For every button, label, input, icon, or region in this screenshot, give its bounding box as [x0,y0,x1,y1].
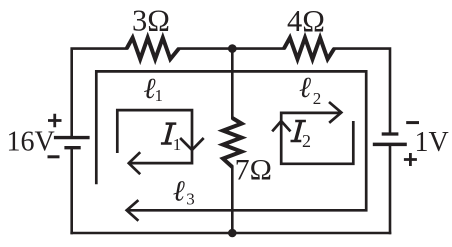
svg-text:4Ω: 4Ω [287,4,325,38]
voltage source 16V plates [54,138,90,148]
svg-text:2: 2 [302,131,311,151]
resistor 3-ohm zigzag [127,38,179,59]
wire bottom [72,232,390,235]
svg-text:ℓ: ℓ [173,175,185,207]
label l1 [144,73,164,105]
wire left-bottom segment [70,149,73,233]
node dot top (junction) [228,44,237,53]
loop l2 rectangle (mesh 2) [272,102,353,164]
label l3 [173,175,195,208]
voltage source 16V minus sign [48,155,60,158]
svg-text:1: 1 [155,86,164,105]
current label I1 [161,122,181,153]
wire middle branch top [231,49,234,118]
svg-text:3Ω: 3Ω [132,4,170,38]
svg-text:ℓ: ℓ [299,72,311,104]
svg-text:16V: 16V [7,126,55,157]
wire between 3-ohm and 4-ohm resistors [179,47,284,50]
label l2 [299,72,321,108]
resistor 7-ohm zigzag (vertical) [223,118,242,167]
node dot bottom (junction) [228,229,237,238]
svg-text:2: 2 [313,89,322,108]
voltage source 16V plus sign [48,114,62,127]
voltage source 1V plus sign [404,153,417,166]
wire top-left segment [72,49,127,136]
svg-text:1V: 1V [415,127,449,158]
voltage source 1V plates [373,134,407,144]
loop l3 path (outer inner rectangle with left arrow) [96,71,366,220]
resistor 4-ohm zigzag [284,38,334,59]
wire right-bottom segment [389,146,392,233]
wire top-right segment [334,49,390,133]
loop l1 rectangle (mesh 1) [117,110,203,174]
wire middle branch bottom [231,167,234,233]
svg-text:7Ω: 7Ω [235,153,272,186]
voltage source 1V minus sign [406,121,419,124]
svg-text:3: 3 [186,189,195,208]
current label I2 [291,120,312,151]
svg-text:1: 1 [173,135,182,154]
